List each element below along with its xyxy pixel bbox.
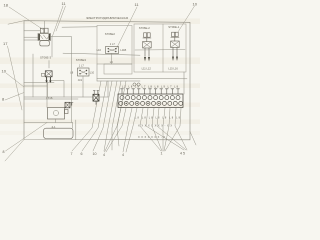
tank T1: [44, 128, 74, 138]
svg-text:L2 L8 L8 L7 L8 L8 L9 L7 L8: L2 L8 L8 L7 L8 L8 L9 L7 L8: [122, 85, 179, 88]
valve A4 body: [143, 42, 152, 49]
valve A5 coils: [172, 32, 175, 36]
svg-text:L11B: L11B: [120, 48, 126, 52]
wire from CV1 right: [99, 81, 108, 97]
leader wire from 10: [6, 73, 24, 87]
leader wire to valve A5: [178, 6, 195, 32]
background bands: [0, 0, 200, 162]
svg-text:ST06E3: ST06E3: [76, 58, 87, 62]
pilot valve B1 left tab: [41, 73, 44, 76]
leader wire from 8: [5, 93, 24, 101]
valve A1 bottom flange: [40, 41, 50, 46]
wire A1 left stubs: [24, 37, 38, 40]
leader wire 11b: [56, 6, 66, 31]
svg-text:L10: L10: [90, 70, 95, 74]
valve A1 solenoid coils: [40, 28, 44, 33]
long wire with ticks (mid): [63, 53, 140, 55]
top line left tail: [8, 21, 24, 25]
svg-text:L11 L12: L11 L12: [142, 66, 152, 70]
manifold bottom port row: [119, 101, 183, 105]
wire A1 top: [24, 21, 44, 31]
svg-text:XXXXXXX-X: XXXXXXX-X: [138, 136, 165, 139]
wire pump feed: [24, 96, 93, 98]
connector circles: [133, 83, 136, 86]
svg-text:L15 L16: L15 L16: [168, 66, 178, 70]
wire box R to manifold: [183, 72, 185, 94]
pilot valve B1 arrows below: [47, 77, 51, 82]
wire A1 right vertical: [51, 36, 53, 57]
box R divider: [162, 24, 164, 72]
wire upper mid: [62, 26, 97, 28]
valve A5 stem: [174, 37, 176, 41]
svg-text:4 5: 4 5: [180, 152, 185, 156]
wire pump vertical: [46, 83, 48, 108]
svg-text:10: 10: [93, 152, 97, 156]
pump flange: [65, 110, 69, 114]
svg-text:4: 4: [122, 153, 124, 157]
wire left bus 2: [24, 85, 47, 87]
svg-text:17: 17: [3, 41, 8, 46]
svg-text:8: 8: [3, 150, 5, 154]
wire below B1: [48, 81, 65, 98]
svg-text:ST06E2: ST06E2: [105, 32, 116, 36]
valve A4 coils: [144, 33, 147, 37]
svg-text:10: 10: [193, 2, 198, 7]
wire bus below boxes: [97, 78, 187, 80]
wire A2 down: [82, 76, 84, 97]
svg-text:1 L7: 1 L7: [110, 42, 116, 46]
wire box M vertical: [96, 64, 98, 81]
inner box M: [97, 26, 132, 65]
svg-text:ST06E-3: ST06E-3: [40, 56, 51, 60]
leader bottom right corner: [190, 132, 196, 146]
check valve CV1: [93, 94, 99, 101]
wires fanning left of manifold: [72, 81, 101, 151]
leader wire from 17 down to pump area: [8, 46, 23, 110]
RV1 tick: [71, 103, 73, 106]
svg-text:6: 6: [81, 152, 83, 156]
leader corner: [5, 140, 24, 162]
wire mid vertical: [32, 54, 34, 97]
valve A5 body: [171, 41, 180, 48]
pilot valve B1 body: [45, 71, 52, 77]
manifold block: [118, 94, 183, 108]
inner box M lower: [104, 64, 132, 74]
svg-text:10: 10: [2, 69, 7, 74]
wire pump bottom: [55, 119, 57, 123]
svg-text:L10: L10: [97, 48, 102, 52]
valve A5 legs: [173, 48, 177, 57]
svg-text:JL9: JL9: [78, 78, 83, 82]
svg-text:1 L7: 1 L7: [79, 64, 85, 68]
wire A3 down: [111, 54, 113, 65]
svg-text:ЭЛЕКТРОГИДРАВЛИЧЕСКАЯ: ЭЛЕКТРОГИДРАВЛИЧЕСКАЯ: [86, 16, 128, 20]
valve A2 body: [78, 68, 90, 76]
leader wire from 18 to valve A1: [9, 7, 43, 30]
svg-text:7: 7: [71, 152, 73, 156]
wire tank right vertical: [75, 120, 77, 140]
valve A4 stem: [146, 38, 148, 42]
leader wire to valve A3: [116, 7, 137, 50]
valve A4 arrowheads: [144, 57, 150, 62]
manifold stems: [121, 89, 180, 94]
svg-text:ST06E-2: ST06E-2: [139, 26, 150, 30]
wire left bus 1: [24, 82, 54, 84]
wire stem to pilot valve: [48, 61, 50, 69]
valve A3 body: [106, 47, 119, 54]
relief valve RV1: [65, 102, 70, 108]
wire through box R: [135, 49, 185, 51]
svg-text:1: 1: [161, 152, 163, 156]
svg-text:4: 4: [103, 153, 105, 157]
manifold top port row: [120, 96, 180, 100]
valve A5 arrowheads: [172, 57, 178, 62]
svg-text:ST06E-1: ST06E-1: [168, 25, 179, 29]
outer enclosure box: [24, 21, 190, 140]
wire A1 right loop down: [51, 36, 72, 122]
leader wire 11a: [53, 6, 64, 36]
leader from 8 to tank: [6, 123, 48, 152]
manifold fan wires: [105, 108, 188, 152]
valve A1 body: [38, 34, 51, 41]
inner box R around A4 A5: [134, 24, 186, 72]
pump box P1: [48, 108, 65, 120]
valve A4 legs: [145, 48, 149, 57]
wire tank line: [24, 123, 73, 129]
svg-text:18: 18: [4, 3, 9, 8]
